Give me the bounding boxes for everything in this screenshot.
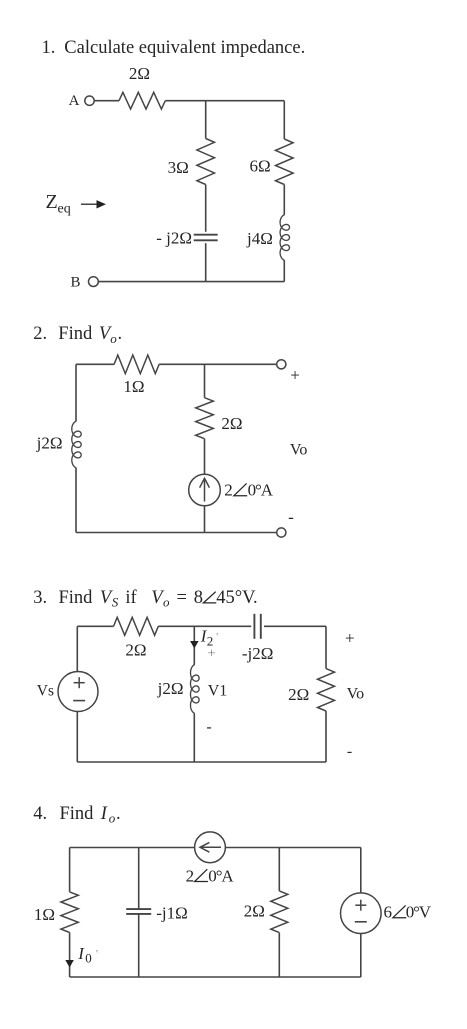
svg-text:2Ω: 2Ω (129, 64, 150, 83)
svg-text:Vo: Vo (347, 686, 365, 703)
svg-text:eq: eq (58, 202, 71, 217)
svg-text:Vs: Vs (37, 682, 54, 699)
svg-text:.: . (118, 324, 123, 344)
svg-text:Find: Find (58, 324, 93, 344)
svg-text:2Ω: 2Ω (221, 414, 242, 433)
svg-text:1Ω: 1Ω (123, 377, 144, 396)
svg-text:1Ω: 1Ω (34, 905, 55, 924)
svg-text:3.: 3. (33, 588, 47, 608)
svg-text:8: 8 (194, 588, 203, 608)
svg-text:B: B (70, 275, 80, 291)
svg-text:Find: Find (59, 588, 94, 608)
svg-text:0°A: 0°A (208, 866, 234, 885)
svg-text:S: S (112, 595, 119, 610)
svg-text:2: 2 (186, 866, 195, 885)
svg-text:Calculate equivalent impedance: Calculate equivalent impedance. (64, 38, 305, 58)
svg-text:I: I (100, 804, 108, 824)
svg-text:o: o (110, 331, 117, 346)
svg-text:+: + (345, 628, 355, 647)
svg-text:+: + (207, 646, 215, 661)
svg-text:j2Ω: j2Ω (36, 434, 63, 453)
svg-text:o: o (109, 811, 116, 826)
svg-text:o: o (163, 595, 170, 610)
svg-text:0°A: 0°A (248, 481, 274, 500)
svg-text:4.: 4. (33, 804, 47, 824)
svg-text:2.: 2. (33, 324, 47, 344)
svg-text:.: . (116, 804, 121, 824)
svg-text:Vo: Vo (290, 442, 308, 459)
svg-text:3Ω: 3Ω (168, 158, 189, 177)
svg-text:2Ω: 2Ω (288, 685, 309, 704)
svg-text:2Ω: 2Ω (244, 902, 265, 921)
svg-text:6: 6 (384, 903, 393, 922)
svg-text:0: 0 (85, 951, 92, 966)
svg-text:6Ω: 6Ω (250, 157, 271, 176)
svg-text:2Ω: 2Ω (125, 641, 146, 660)
svg-text:Find: Find (60, 804, 95, 824)
svg-text:A: A (69, 93, 80, 109)
svg-text:=: = (177, 588, 187, 608)
svg-text:I: I (77, 944, 85, 963)
svg-text:-: - (288, 508, 294, 527)
svg-text:45°V.: 45°V. (216, 588, 258, 608)
svg-text:-: - (347, 743, 352, 760)
svg-text:0°V: 0°V (406, 903, 432, 922)
svg-text:j4Ω: j4Ω (246, 229, 273, 248)
svg-text:- j2Ω: - j2Ω (156, 229, 192, 248)
svg-text:+: + (290, 366, 300, 385)
svg-text:-j1Ω: -j1Ω (156, 904, 188, 923)
svg-text:V1: V1 (208, 683, 228, 700)
svg-text:-j2Ω: -j2Ω (242, 644, 274, 663)
svg-text:ʽ: ʽ (95, 948, 99, 960)
svg-text:-: - (206, 719, 211, 736)
svg-text:if: if (125, 588, 137, 608)
svg-text:ʽ: ʽ (216, 631, 220, 643)
svg-text:1.: 1. (42, 38, 56, 58)
svg-text:2: 2 (224, 481, 233, 500)
svg-text:j2Ω: j2Ω (157, 679, 184, 698)
svg-text:Z: Z (46, 191, 58, 213)
